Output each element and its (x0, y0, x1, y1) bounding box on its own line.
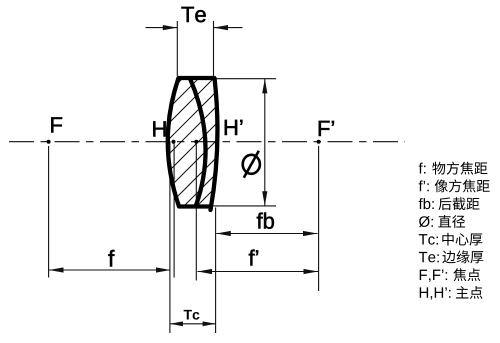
legend line diameter (419, 215, 465, 228)
extension line from H' down (195, 144, 197, 281)
f' arrow left (198, 269, 213, 274)
legend line f' (419, 179, 490, 192)
diameter extension line top (215, 78, 276, 80)
Te arrow left (points right) (163, 25, 178, 30)
f' arrow right (304, 269, 319, 274)
label Tc (184, 310, 192, 320)
Tc arrow right (203, 321, 216, 326)
label F (51, 117, 62, 132)
f' dimension line (198, 271, 319, 273)
label f (108, 250, 114, 267)
label H' (225, 120, 237, 135)
Te extension line left (176, 21, 178, 76)
label fb (257, 213, 263, 229)
extension line from F down (48, 146, 50, 278)
legend line Te (419, 250, 484, 263)
fb dimension line (216, 233, 317, 235)
principal point H marker (172, 140, 176, 144)
focal point F' marker (317, 140, 321, 144)
f dimension line (49, 269, 171, 271)
fb arrow left (216, 231, 231, 236)
label F' (319, 121, 330, 136)
legend line Tc (419, 233, 483, 246)
extension line from rear vertex (fb/Tc right) (215, 208, 217, 334)
lens rear surface (inner arc) (190, 79, 206, 206)
lens left (front) surface (168, 78, 179, 207)
Te extension line right (213, 21, 215, 76)
lens top edge (179, 76, 215, 80)
Te dimension line tails (146, 27, 178, 29)
focal point F marker (47, 140, 51, 144)
Te arrow right (points left) (214, 25, 229, 30)
label f' (249, 250, 255, 266)
legend line F,F' (420, 268, 480, 282)
legend line f (419, 162, 488, 175)
extension line from F' down (318, 146, 320, 291)
optical axis (chain line) (9, 141, 405, 143)
legend line fb (419, 197, 480, 210)
diameter symbol (243, 151, 260, 178)
label H (153, 121, 165, 136)
diameter arrow top (262, 79, 267, 94)
lens right outer (edge) contour (211, 78, 218, 210)
diameter extension line bottom (214, 205, 277, 207)
diameter arrow bottom (262, 191, 267, 206)
extension line from left surface vertex (Tc left) (169, 142, 171, 333)
Tc arrow left (170, 321, 183, 326)
f arrow right (156, 267, 171, 272)
Tc dimension line (170, 323, 216, 325)
extension line from H down (173, 144, 175, 278)
legend line H,H' (420, 286, 483, 300)
label Te (181, 7, 193, 22)
f arrow left (49, 267, 64, 272)
principal point H' marker (194, 140, 198, 144)
fb arrow right (303, 231, 318, 236)
lens bottom edge (179, 204, 213, 208)
diameter dimension line (264, 79, 266, 206)
